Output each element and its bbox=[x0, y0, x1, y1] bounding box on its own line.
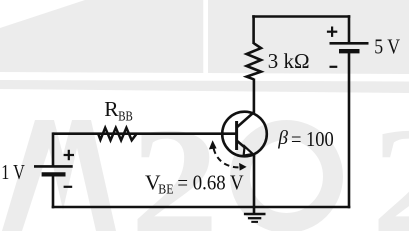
svg-text:5 V: 5 V bbox=[374, 34, 400, 58]
battery V1 short thick plate bbox=[42, 172, 66, 176]
svg-text:= 100: = 100 bbox=[291, 127, 334, 151]
ground bar 1 bbox=[244, 213, 266, 216]
watermark top-left gray block bbox=[0, 0, 203, 73]
dashed VBE arrow head right bbox=[239, 163, 247, 171]
transistor Q1 collector lead bbox=[237, 112, 255, 128]
wire left drop bbox=[52, 132, 55, 166]
wire top bbox=[252, 15, 350, 18]
dashed VBE arrow curve bbox=[214, 149, 242, 168]
wire top-right drop to battery bbox=[348, 15, 351, 43]
watermark top-right gray block bbox=[208, 0, 409, 74]
svg-text:2: 2 bbox=[130, 96, 219, 231]
resistor RBB zigzag bbox=[98, 128, 136, 141]
wire battery V1 to bottom bbox=[52, 175, 55, 208]
transistor Q1 circle bbox=[222, 112, 267, 157]
svg-text:2: 2 bbox=[371, 96, 409, 231]
wire base bbox=[53, 132, 236, 135]
battery V1 long plate bbox=[34, 165, 73, 168]
wire resistor to transistor collector bbox=[253, 79, 256, 114]
svg-text:1 V: 1 V bbox=[1, 160, 25, 184]
wire bottom bbox=[52, 206, 351, 209]
svg-text:BE: BE bbox=[158, 182, 173, 197]
battery V2 short thick plate bbox=[339, 49, 360, 53]
wire top-left drop to resistor bbox=[252, 15, 255, 44]
transistor Q1 emitter arrowhead (open) bbox=[244, 146, 253, 155]
ground bar 3 bbox=[251, 221, 258, 223]
transistor Q1 base bar bbox=[235, 121, 238, 150]
svg-text:R: R bbox=[104, 97, 119, 121]
ground bar 2 bbox=[248, 217, 261, 219]
watermark digit 0 bbox=[240, 130, 333, 223]
transistor Q1 emitter lead bbox=[237, 141, 246, 149]
ground stem bbox=[253, 207, 256, 214]
svg-text:= 0.68 V: = 0.68 V bbox=[177, 171, 244, 195]
battery V2 long plate bbox=[330, 42, 369, 45]
battery V1 minus sign bbox=[64, 186, 73, 188]
dashed VBE arrow head up bbox=[209, 140, 217, 149]
battery V2 minus sign bbox=[330, 66, 338, 68]
wire battery V2 to bottom bbox=[348, 52, 351, 208]
watermark letter M bbox=[2, 120, 116, 231]
svg-text:3 kΩ: 3 kΩ bbox=[268, 49, 310, 73]
battery V2 plus sign bbox=[327, 27, 337, 37]
svg-text:BB: BB bbox=[118, 109, 133, 124]
resistor R 3k zigzag bbox=[247, 43, 261, 79]
watermark gray band bbox=[0, 80, 409, 93]
battery V1 plus sign bbox=[64, 150, 74, 160]
wire emitter to bottom bbox=[253, 154, 256, 207]
svg-text:β: β bbox=[277, 128, 288, 149]
